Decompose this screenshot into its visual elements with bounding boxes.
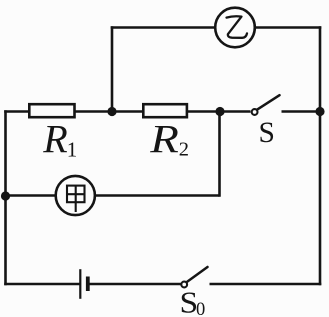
node B junction dot (215, 107, 224, 116)
wire bottom left segment to battery (4, 283, 80, 286)
wire meter-jia row horizontal (6, 194, 220, 197)
wire vertical from meter-jia row up to node B (218, 112, 221, 197)
wire middle row left segment (4, 110, 250, 113)
wire right vertical (319, 26, 322, 285)
svg-text:1: 1 (67, 137, 78, 161)
wire top left horizontal (111, 26, 215, 29)
switch S pivot circle (252, 109, 258, 115)
wire bottom battery to switch S0 (88, 283, 181, 286)
wire bottom right segment after switch S0 (210, 283, 322, 286)
switch S0 blade (187, 267, 208, 282)
svg-text:0: 0 (196, 300, 205, 317)
meter U1 (jia) circle (56, 176, 95, 215)
node C junction dot right (315, 107, 324, 116)
switch S blade (257, 95, 279, 109)
svg-text:2: 2 (179, 139, 189, 161)
battery long plate (79, 269, 81, 299)
resistor R2 (143, 104, 187, 117)
battery short plate (86, 277, 90, 292)
wire left vertical (4, 110, 7, 285)
wire middle row right segment after switch S (282, 110, 321, 113)
meter U2 glyph yi (227, 16, 248, 37)
meter U2 (yi) circle (215, 8, 255, 48)
node D junction dot left (1, 191, 10, 200)
svg-text:R: R (149, 118, 179, 162)
resistor R1 (29, 104, 74, 117)
wire vertical from top wire to node A (111, 26, 114, 111)
svg-text:R: R (42, 116, 67, 161)
svg-text:S: S (259, 117, 275, 149)
meter U1 glyph jia (67, 186, 85, 212)
switch S0 pivot circle (181, 282, 187, 288)
node A junction dot (107, 107, 116, 116)
wire top right horizontal (255, 26, 321, 29)
